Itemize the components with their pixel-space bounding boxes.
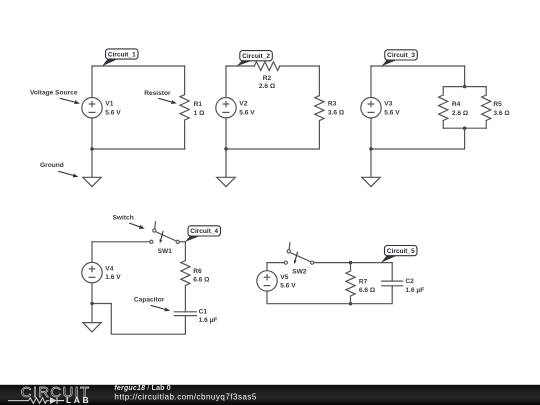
- svg-text:ferguc18 / Lab 0: ferguc18 / Lab 0: [114, 385, 171, 392]
- voltage source V5: [257, 271, 277, 291]
- svg-text:V5: V5: [280, 274, 288, 281]
- wire: [350, 263, 352, 271]
- junction: [349, 261, 352, 264]
- node label Circuit_4: [185, 226, 221, 242]
- annotation Resistor: [144, 90, 177, 104]
- wire: [370, 66, 372, 98]
- svg-text:C1: C1: [199, 308, 208, 315]
- resistor R1: [180, 95, 189, 121]
- svg-text:Circuit_5: Circuit_5: [387, 248, 415, 255]
- svg-text:V2: V2: [239, 101, 247, 108]
- junction: [224, 147, 227, 150]
- ground: [83, 323, 101, 332]
- annotation Ground: [40, 162, 79, 177]
- junction: [349, 302, 352, 305]
- svg-text:V3: V3: [384, 101, 392, 108]
- junction: [90, 147, 93, 150]
- junction: [90, 302, 93, 305]
- svg-text:Resistor: Resistor: [144, 90, 171, 97]
- wire: [91, 66, 93, 98]
- svg-text:Circuit_2: Circuit_2: [242, 53, 270, 60]
- svg-text:1.6 µF: 1.6 µF: [199, 317, 218, 324]
- ground: [83, 177, 101, 186]
- annotation Voltage Source: [30, 89, 80, 104]
- svg-text:1.6 V: 1.6 V: [105, 274, 121, 281]
- svg-text:Circuit_3: Circuit_3: [387, 52, 415, 59]
- svg-text:Switch: Switch: [113, 214, 134, 221]
- junction: [463, 127, 466, 130]
- svg-text:R4: R4: [452, 101, 461, 108]
- wire: [443, 86, 486, 88]
- wire: [91, 304, 93, 323]
- junction: [463, 85, 466, 88]
- svg-text:Voltage Source: Voltage Source: [30, 89, 78, 96]
- svg-text:1 Ω: 1 Ω: [194, 110, 205, 117]
- svg-text:6.6 Ω: 6.6 Ω: [193, 276, 210, 283]
- voltage source V3: [361, 98, 381, 118]
- annotation Capacitor: [134, 296, 170, 311]
- wire: [266, 263, 268, 271]
- switch SW2: [284, 243, 314, 265]
- footer bar: [0, 385, 540, 405]
- resistor R7: [346, 271, 355, 296]
- wire: [442, 87, 444, 95]
- voltage source V4: [82, 262, 102, 282]
- svg-text:5.6 V: 5.6 V: [280, 283, 296, 290]
- svg-text:Circuit_4: Circuit_4: [190, 228, 218, 235]
- junction: [369, 147, 372, 150]
- svg-text:5.6 V: 5.6 V: [239, 109, 255, 116]
- wire: [280, 65, 320, 67]
- svg-text:R2: R2: [263, 75, 272, 82]
- resistor R3: [315, 96, 324, 121]
- svg-text:R3: R3: [328, 101, 337, 108]
- wire: [91, 149, 93, 177]
- ground: [217, 177, 235, 186]
- wire: [184, 286, 186, 312]
- node label Circuit_2: [237, 51, 273, 67]
- wire: [485, 121, 487, 129]
- svg-text:http://circuitlab.com/cbnuyq7f: http://circuitlab.com/cbnuyq7f3sas5: [114, 392, 257, 401]
- wire: [464, 66, 466, 87]
- svg-text:C2: C2: [405, 278, 414, 285]
- svg-text:3.6 Ω: 3.6 Ω: [328, 109, 345, 116]
- wire: [225, 118, 227, 149]
- svg-text:Ground: Ground: [40, 162, 64, 169]
- svg-text:R7: R7: [359, 278, 368, 285]
- svg-text:5.6 V: 5.6 V: [384, 109, 400, 116]
- wire: [443, 127, 486, 129]
- wire: [225, 66, 227, 98]
- wire: [184, 242, 186, 261]
- voltage source V1: [82, 98, 102, 118]
- node label Circuit_1: [102, 49, 138, 66]
- wire: [267, 262, 284, 264]
- svg-text:6.6 Ω: 6.6 Ω: [359, 287, 376, 294]
- svg-text:SW1: SW1: [158, 248, 173, 255]
- wire: [92, 304, 185, 335]
- capacitor C1: [174, 312, 196, 316]
- wire: [371, 65, 465, 67]
- svg-text:V4: V4: [105, 266, 113, 273]
- resistor R2: [254, 62, 279, 71]
- wire: [226, 121, 319, 149]
- svg-text:V1: V1: [105, 101, 113, 108]
- wire: [91, 242, 93, 263]
- voltage source V2: [216, 98, 236, 118]
- wire: [184, 66, 186, 95]
- resistor R6: [181, 261, 190, 286]
- wire: [91, 283, 93, 304]
- svg-text:2.6 Ω: 2.6 Ω: [452, 110, 469, 117]
- wire: [442, 121, 444, 129]
- wire: [226, 65, 254, 67]
- wire: [92, 241, 150, 243]
- switch SW1: [150, 222, 180, 244]
- svg-text:Capacitor: Capacitor: [134, 296, 165, 303]
- capacitor C2: [382, 281, 403, 286]
- wire: [267, 286, 392, 304]
- annotation Switch: [113, 214, 145, 228]
- wire: [370, 149, 372, 177]
- resistor R4: [439, 95, 448, 121]
- wire: [92, 65, 185, 67]
- svg-text:1.6 µF: 1.6 µF: [405, 287, 424, 294]
- wire: [350, 296, 352, 304]
- svg-text:R1: R1: [194, 101, 203, 108]
- wire: [314, 262, 393, 264]
- node label Circuit_3: [381, 50, 417, 67]
- node label Circuit_5: [381, 246, 417, 263]
- svg-text:SW2: SW2: [292, 269, 307, 276]
- wire: [184, 120, 186, 149]
- svg-text:R6: R6: [193, 268, 202, 275]
- svg-text:LAB: LAB: [66, 395, 91, 405]
- wire: [485, 87, 487, 95]
- svg-text:2.6 Ω: 2.6 Ω: [259, 83, 276, 90]
- wire: [391, 263, 393, 282]
- svg-text:3.6 Ω: 3.6 Ω: [493, 110, 510, 117]
- svg-text:R5: R5: [493, 101, 502, 108]
- svg-text:Circuit_1: Circuit_1: [108, 51, 136, 58]
- logo CircuitLab: [8, 384, 91, 405]
- wire: [92, 148, 185, 150]
- wire: [225, 149, 227, 177]
- wire: [91, 118, 93, 149]
- wire: [370, 118, 372, 149]
- wire: [179, 241, 185, 243]
- wire: [318, 66, 320, 96]
- ground: [362, 177, 380, 186]
- wire: [371, 128, 465, 149]
- svg-text:5.6 V: 5.6 V: [105, 109, 121, 116]
- resistor R5: [482, 95, 491, 121]
